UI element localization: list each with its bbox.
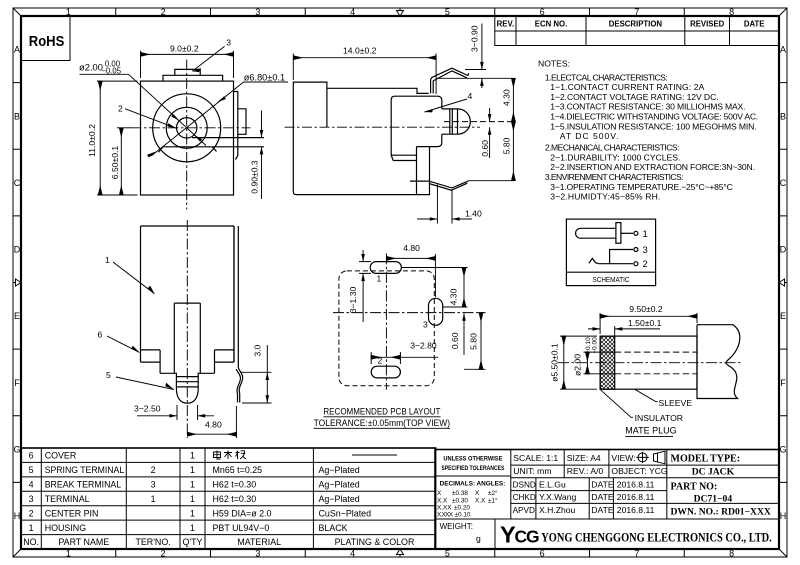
svg-text:Ag−Plated: Ag−Plated bbox=[319, 494, 360, 504]
svg-text:4.80: 4.80 bbox=[403, 243, 420, 253]
pad slot 1 bbox=[370, 262, 401, 274]
svg-text:5: 5 bbox=[29, 465, 34, 475]
center pin circle ø2.00 bbox=[177, 118, 197, 138]
SCHEMATICBOX bbox=[566, 219, 655, 286]
switch contact bbox=[589, 258, 599, 263]
svg-text:1−5.INSULATION RESISTANCE: 1: 1−5.INSULATION RESISTANCE: 100 MEGOHMS M… bbox=[550, 121, 756, 131]
svg-text:2: 2 bbox=[161, 549, 166, 559]
dim 5.80 right bbox=[480, 313, 482, 370]
dim 0.60 line bbox=[489, 108, 491, 158]
svg-text:1: 1 bbox=[643, 229, 648, 240]
svg-text:DESCRIPTION: DESCRIPTION bbox=[609, 20, 663, 29]
terminal tab small bbox=[238, 109, 246, 135]
svg-text:6: 6 bbox=[29, 451, 34, 461]
svg-text:1: 1 bbox=[190, 451, 195, 461]
dim 9.50 bbox=[600, 315, 697, 317]
spring clip top bbox=[431, 68, 469, 93]
svg-text:F: F bbox=[780, 378, 786, 388]
grid ticks left bbox=[13, 83, 21, 483]
terminal circle 1 bbox=[634, 231, 638, 235]
svg-text:D: D bbox=[780, 245, 787, 255]
dim 11.0 ext bbox=[97, 81, 138, 195]
svg-text:COVER: COVER bbox=[45, 451, 77, 461]
tolerance box text bbox=[441, 456, 505, 472]
svg-text:A: A bbox=[780, 45, 786, 55]
wire pin 3 bbox=[610, 250, 634, 264]
svg-text:6: 6 bbox=[98, 330, 103, 340]
corner diagonal TL bbox=[13, 8, 21, 16]
svg-text:SIZE: A4: SIZE: A4 bbox=[567, 453, 601, 463]
spring pin dome bbox=[176, 389, 198, 404]
svg-text:MATERIAL: MATERIAL bbox=[237, 537, 281, 547]
svg-text:X.XXX: X.XXX bbox=[437, 512, 454, 519]
svg-text:1−4.DIELECTRIC WITHSTANDING: 1−4.DIELECTRIC WITHSTANDING VOLTAGE: 500… bbox=[550, 112, 758, 122]
svg-text:B: B bbox=[780, 111, 786, 121]
footprint dashed outline bbox=[339, 271, 434, 386]
pad slot 3 bbox=[429, 298, 443, 325]
mate plug centerline bbox=[558, 362, 741, 364]
leader 2 bbox=[125, 109, 177, 129]
svg-text:CuSn−Plated: CuSn−Plated bbox=[319, 508, 372, 518]
svg-text:DC71−04: DC71−04 bbox=[694, 494, 733, 505]
svg-text:3: 3 bbox=[255, 549, 260, 559]
svg-text:14.0±0.2: 14.0±0.2 bbox=[343, 46, 377, 56]
svg-text:PBT UL94V−0: PBT UL94V−0 bbox=[213, 523, 270, 533]
svg-text:0.60: 0.60 bbox=[480, 140, 490, 157]
svg-text:2: 2 bbox=[643, 259, 648, 270]
svg-text:X.X: X.X bbox=[475, 498, 486, 505]
housing outline side bbox=[293, 82, 429, 195]
svg-text:PART NO:: PART NO: bbox=[671, 482, 718, 493]
svg-text:2−1.DURABILITY: 1000 CYCLES.: 2−1.DURABILITY: 1000 CYCLES. bbox=[550, 152, 680, 162]
svg-text:DWN. NO.: RD01−XXX: DWN. NO.: RD01−XXX bbox=[671, 506, 771, 517]
view symbols bbox=[636, 451, 665, 464]
dim 4.80 top bbox=[386, 257, 435, 259]
svg-text:ø5.50±0.1: ø5.50±0.1 bbox=[550, 343, 560, 382]
svg-text:1: 1 bbox=[29, 523, 34, 533]
svg-text:3.ENVIRENMENT CHARACTERISTICS: 3.ENVIRENMENT CHARACTERISTICS: bbox=[545, 172, 684, 182]
PCBVIEW bbox=[314, 243, 486, 428]
svg-text:INSULATOR: INSULATOR bbox=[635, 413, 683, 423]
svg-text:9.0±0.2: 9.0±0.2 bbox=[170, 44, 199, 54]
terminal circle 3 bbox=[634, 248, 638, 252]
svg-text:TERMINAL: TERMINAL bbox=[45, 494, 90, 504]
svg-text:1.ELECTCAL CHARACTERISTICS:: 1.ELECTCAL CHARACTERISTICS: bbox=[545, 72, 668, 82]
dim 3-1.30 bbox=[359, 250, 371, 322]
dim 11.0 line bbox=[99, 81, 101, 195]
centering arrow left bbox=[13, 279, 21, 286]
svg-text:OBJECT: YCG: OBJECT: YCG bbox=[611, 466, 668, 476]
svg-text:X.X: X.X bbox=[437, 498, 448, 505]
pad slot 2 bbox=[371, 366, 400, 378]
svg-text:±2°: ±2° bbox=[488, 489, 498, 497]
svg-text:3−0.90: 3−0.90 bbox=[469, 25, 479, 52]
svg-text:Q'TY: Q'TY bbox=[183, 537, 203, 547]
svg-text:H: H bbox=[780, 511, 787, 521]
arrowheads on circle dims bbox=[147, 68, 263, 158]
svg-text:1: 1 bbox=[377, 274, 382, 284]
center pin side bbox=[442, 109, 471, 134]
svg-text:0.60: 0.60 bbox=[450, 332, 460, 349]
svg-text:Ag−Plated: Ag−Plated bbox=[319, 465, 360, 475]
svg-text:C: C bbox=[14, 178, 21, 188]
svg-text:Y.X.Wang: Y.X.Wang bbox=[539, 492, 576, 502]
dim 6.50 line bbox=[120, 128, 122, 195]
dash in plating col row1 bbox=[352, 454, 397, 456]
svg-text:2: 2 bbox=[118, 104, 123, 114]
svg-text:ECN NO.: ECN NO. bbox=[535, 20, 568, 29]
FRONTVIEW bbox=[79, 37, 288, 209]
svg-text:ø2.00: ø2.00 bbox=[79, 62, 103, 73]
grid ticks bottom bbox=[116, 549, 685, 557]
svg-text:SCALE: 1:1: SCALE: 1:1 bbox=[513, 453, 558, 463]
svg-text:D: D bbox=[14, 245, 21, 255]
svg-text:1: 1 bbox=[105, 255, 110, 265]
svg-text:F: F bbox=[14, 378, 20, 388]
svg-text:3−2.50: 3−2.50 bbox=[134, 404, 161, 414]
svg-text:HOUSING: HOUSING bbox=[45, 523, 87, 533]
clip bottom ext line bbox=[469, 180, 515, 182]
dim 1.40 bbox=[417, 185, 472, 224]
TITLEBLOCK bbox=[435, 450, 779, 550]
svg-text:NOTES:: NOTES: bbox=[538, 59, 570, 69]
svg-text:6: 6 bbox=[540, 549, 545, 559]
svg-text:1.50±0.1: 1.50±0.1 bbox=[628, 318, 662, 328]
svg-text:2016.8.11: 2016.8.11 bbox=[617, 492, 655, 502]
svg-text:BLACK: BLACK bbox=[319, 523, 348, 533]
svg-text:WEIGHT:: WEIGHT: bbox=[440, 522, 473, 531]
model type bbox=[671, 454, 771, 518]
dim 4.30 5.80 line bbox=[512, 78, 514, 121]
barrel outline bbox=[391, 96, 442, 194]
svg-text:4: 4 bbox=[350, 549, 355, 559]
dim 0.60 right bbox=[463, 313, 465, 355]
svg-text:SCHEMATIC: SCHEMATIC bbox=[593, 275, 630, 284]
dim 4.30 right bbox=[463, 268, 465, 308]
insulator hatched band bbox=[600, 336, 615, 389]
centering arrow bottom bbox=[397, 549, 404, 557]
housing body front bbox=[141, 81, 234, 195]
wire pin 2 bbox=[599, 263, 633, 265]
svg-text:2016.8.11: 2016.8.11 bbox=[617, 505, 655, 515]
svg-text:4: 4 bbox=[350, 7, 355, 17]
svg-text:CG: CG bbox=[515, 526, 539, 546]
svg-text:1: 1 bbox=[190, 480, 195, 490]
leader sleeve bbox=[635, 389, 658, 401]
dim ø2.00 bbox=[586, 352, 588, 374]
svg-text:5.80: 5.80 bbox=[502, 137, 512, 154]
leader 4 bbox=[425, 99, 468, 112]
svg-text:RoHS: RoHS bbox=[29, 34, 65, 50]
leader diag ø6.80 bbox=[151, 82, 288, 156]
dim 3-0.90 line bbox=[465, 24, 486, 89]
dim 3-2.80 bbox=[371, 356, 400, 358]
svg-text:±0.38: ±0.38 bbox=[452, 490, 468, 497]
svg-text:0.90±0.3: 0.90±0.3 bbox=[250, 160, 260, 194]
svg-text:3−2.HUMIDTY:45~85% RH.: 3−2.HUMIDTY:45~85% RH. bbox=[550, 192, 660, 202]
svg-text:±0.30: ±0.30 bbox=[452, 498, 468, 505]
centerline horizontal bbox=[131, 127, 251, 129]
svg-text:X.H.Zhou: X.H.Zhou bbox=[539, 505, 576, 515]
svg-text:±0.10: ±0.10 bbox=[455, 512, 471, 519]
SIDEVIEW bbox=[285, 24, 515, 224]
svg-text:SLEEVE: SLEEVE bbox=[659, 398, 693, 408]
svg-text:Ag−Plated: Ag−Plated bbox=[319, 480, 360, 490]
pin hole dashed lines bbox=[615, 351, 697, 353]
svg-text:2: 2 bbox=[161, 7, 166, 17]
svg-text:4: 4 bbox=[468, 91, 473, 101]
svg-text:X: X bbox=[437, 490, 442, 497]
svg-text:H59 DIA=ø 2.0: H59 DIA=ø 2.0 bbox=[213, 508, 272, 518]
svg-text:−0.00: −0.00 bbox=[592, 337, 599, 354]
corner diagonal TR bbox=[779, 8, 787, 16]
svg-text:SPECIFIED TOLERANCES: SPECIFIED TOLERANCES bbox=[441, 465, 505, 472]
svg-text:5: 5 bbox=[445, 7, 450, 17]
svg-text:2: 2 bbox=[29, 508, 34, 518]
svg-text:RECOMMENDED PCB LAYOUT: RECOMMENDED PCB LAYOUT bbox=[323, 407, 440, 417]
svg-text:BREAK TERMINAL: BREAK TERMINAL bbox=[45, 480, 122, 490]
leader diag ø2.00 bbox=[80, 74, 207, 145]
svg-text:UNIT: mm: UNIT: mm bbox=[513, 466, 551, 476]
dim 3-2.50 bbox=[137, 405, 214, 420]
svg-text:5: 5 bbox=[106, 370, 111, 380]
pcb centerline vertical bbox=[385, 253, 387, 389]
svg-text:MATE PLUG: MATE PLUG bbox=[625, 425, 676, 435]
MATEPLUG bbox=[550, 304, 742, 437]
svg-text:CENTER PIN: CENTER PIN bbox=[45, 508, 99, 518]
bakelite chinese label bbox=[214, 451, 246, 460]
keyway chord bbox=[159, 138, 265, 153]
svg-text:2016.8.11: 2016.8.11 bbox=[617, 479, 655, 489]
centering arrow right bbox=[779, 279, 787, 286]
centerline vertical bbox=[186, 60, 188, 210]
svg-text:g: g bbox=[476, 534, 481, 544]
NOTES bbox=[538, 59, 758, 202]
svg-text:Mn65 t=0.25: Mn65 t=0.25 bbox=[213, 465, 263, 475]
svg-text:UNLESS OTHERWISE: UNLESS OTHERWISE bbox=[443, 456, 503, 463]
scale row bbox=[440, 453, 668, 544]
housing body lower view bbox=[141, 226, 235, 362]
svg-text:1: 1 bbox=[151, 494, 156, 504]
spring clip bottom bbox=[410, 181, 469, 190]
svg-text:NO.: NO. bbox=[23, 537, 39, 547]
cable end with break bbox=[697, 325, 740, 399]
svg-text:ø2.00: ø2.00 bbox=[572, 354, 582, 376]
leader 6 bbox=[107, 336, 140, 353]
inner circle bbox=[166, 107, 207, 148]
dim 0.90 lines bbox=[261, 111, 263, 200]
dim 6.50 ext bbox=[117, 127, 131, 129]
svg-text:1: 1 bbox=[66, 549, 71, 559]
pin offset dashed line bbox=[444, 121, 515, 123]
svg-text:2: 2 bbox=[378, 356, 383, 366]
svg-text:G: G bbox=[779, 444, 786, 454]
flange right bbox=[215, 350, 235, 373]
svg-text:X: X bbox=[475, 490, 480, 497]
terminal plate lower bbox=[234, 226, 238, 368]
svg-text:TER'NO.: TER'NO. bbox=[135, 537, 170, 547]
leader 1 bbox=[113, 262, 155, 294]
plug stop bar bbox=[616, 223, 621, 244]
svg-text:3: 3 bbox=[226, 37, 231, 47]
dim 14.0 ext bbox=[293, 54, 436, 95]
center block bbox=[160, 303, 214, 373]
svg-text:TOLERANCE:±0.05mm(TOP VIEW): TOLERANCE:±0.05mm(TOP VIEW) bbox=[314, 418, 451, 428]
svg-text:5.80: 5.80 bbox=[469, 333, 479, 350]
svg-text:4.30: 4.30 bbox=[449, 288, 459, 305]
svg-text:DSND: DSND bbox=[513, 480, 536, 489]
corner diagonal BR bbox=[779, 549, 787, 557]
svg-text:3: 3 bbox=[29, 494, 34, 504]
svg-text:5: 5 bbox=[445, 549, 450, 559]
svg-text:3: 3 bbox=[423, 320, 428, 330]
svg-text:ANGLES:: ANGLES: bbox=[477, 481, 506, 488]
svg-text:E: E bbox=[780, 311, 786, 321]
PARTSTABLE bbox=[21, 448, 436, 549]
grid ticks right bbox=[779, 83, 787, 483]
pcb layout caption bbox=[314, 407, 451, 428]
svg-text:DATE: DATE bbox=[591, 492, 614, 502]
svg-text:ø6.80±0.1: ø6.80±0.1 bbox=[244, 73, 285, 83]
centerline vertical lower bbox=[186, 220, 188, 438]
svg-text:REV.: REV. bbox=[497, 20, 514, 29]
svg-text:DECIMALS:: DECIMALS: bbox=[440, 481, 476, 488]
clip top ext line bbox=[437, 77, 515, 79]
svg-text:DATE: DATE bbox=[591, 505, 614, 515]
svg-text:1: 1 bbox=[190, 465, 195, 475]
grid ticks top bbox=[116, 8, 685, 16]
ROHS bbox=[21, 16, 70, 61]
terminal circle 2 bbox=[634, 262, 638, 266]
svg-text:3−2.80: 3−2.80 bbox=[410, 341, 437, 351]
svg-text:SPRING TERMINAL: SPRING TERMINAL bbox=[45, 465, 125, 475]
slot1 center ext bbox=[402, 267, 468, 269]
svg-text:E: E bbox=[14, 311, 20, 321]
svg-text:7: 7 bbox=[634, 549, 639, 559]
svg-text:4.30: 4.30 bbox=[502, 89, 512, 106]
spring pin ribs bbox=[176, 373, 198, 388]
svg-text:G: G bbox=[13, 444, 20, 454]
leader 5 bbox=[116, 377, 174, 390]
svg-text:3−1.30: 3−1.30 bbox=[348, 287, 358, 314]
svg-text:H: H bbox=[14, 511, 21, 521]
dim 14.0 line bbox=[293, 57, 436, 59]
svg-text:±1°: ±1° bbox=[488, 497, 498, 505]
svg-text:REV.: A/0: REV.: A/0 bbox=[567, 466, 604, 476]
svg-text:1−3.CONTACT RESISTANCE: 30: 1−3.CONTACT RESISTANCE: 30 MILLIOHMS MAX… bbox=[550, 102, 745, 112]
svg-text:H62 t=0.30: H62 t=0.30 bbox=[213, 494, 257, 504]
plug barrel sleeve bbox=[600, 336, 697, 389]
svg-text:E.L.Gu: E.L.Gu bbox=[539, 479, 566, 489]
svg-text:11.0±0.2: 11.0±0.2 bbox=[87, 124, 97, 157]
svg-text:3: 3 bbox=[151, 480, 156, 490]
svg-text:C: C bbox=[780, 178, 787, 188]
dim 4.80 bbox=[187, 433, 236, 435]
dim ø5.50 bbox=[563, 336, 565, 389]
texts bbox=[79, 37, 285, 193]
corner diagonal BL bbox=[13, 549, 21, 557]
svg-text:4.80: 4.80 bbox=[205, 420, 222, 430]
svg-text:3: 3 bbox=[255, 7, 260, 17]
dim 1.50 bbox=[588, 326, 660, 338]
bent wire leg bbox=[236, 368, 243, 403]
dim 9.0 ext bbox=[141, 51, 234, 78]
svg-text:A: A bbox=[14, 45, 20, 55]
svg-text:6.50±0.1: 6.50±0.1 bbox=[110, 146, 120, 180]
flange left bbox=[141, 350, 161, 373]
svg-text:H62 t=0.30: H62 t=0.30 bbox=[213, 480, 257, 490]
svg-text:1: 1 bbox=[190, 508, 195, 518]
REVTABLE bbox=[495, 16, 779, 46]
svg-text:DATE: DATE bbox=[744, 20, 765, 29]
svg-text:9.50±0.2: 9.50±0.2 bbox=[629, 304, 663, 314]
svg-text:CHKD: CHKD bbox=[513, 493, 536, 502]
svg-text:VIEW:: VIEW: bbox=[611, 453, 635, 463]
dim 3.0 line bbox=[266, 345, 268, 403]
svg-text:2−2.INSERTION AND EXTRACTION: 2−2.INSERTION AND EXTRACTION FORCE:3N~30… bbox=[550, 162, 755, 172]
svg-text:B: B bbox=[14, 111, 20, 121]
leader insulator bbox=[601, 390, 634, 418]
svg-text:2: 2 bbox=[151, 465, 156, 475]
pcb centerline horizontal bbox=[333, 312, 486, 314]
svg-text:APVD: APVD bbox=[513, 506, 535, 515]
cover tab small bump bbox=[175, 69, 200, 75]
svg-text:1−2.CONTACT VOLTAGE RATING:: 1−2.CONTACT VOLTAGE RATING: 12V DC. bbox=[550, 92, 718, 102]
svg-text:1.40: 1.40 bbox=[465, 209, 482, 219]
svg-text:−0.05: −0.05 bbox=[101, 66, 121, 75]
dim 9.0 line bbox=[141, 53, 234, 55]
svg-text:MODEL TYPE:: MODEL TYPE: bbox=[671, 454, 741, 465]
svg-text:PART NAME: PART NAME bbox=[58, 537, 109, 547]
barrel circle ø6.80 bbox=[153, 94, 221, 162]
leader 3 bbox=[192, 46, 224, 71]
svg-text:3−1.OPERATING TEMPERATURE.−25: 3−1.OPERATING TEMPERATURE.−25°C~+85°C bbox=[550, 182, 733, 192]
svg-text:AT DC 500V.: AT DC 500V. bbox=[560, 131, 619, 141]
plug tip symbol bbox=[576, 228, 616, 238]
svg-text:3: 3 bbox=[643, 245, 648, 256]
BOTTOMVIEW bbox=[98, 220, 272, 438]
centering arrow top bbox=[397, 8, 404, 16]
wire pin 1 bbox=[621, 232, 633, 234]
housing top edge bbox=[327, 88, 429, 93]
svg-text:YONG CHENGGONG ELECTRONICS CO.: YONG CHENGGONG ELECTRONICS CO., LTD. bbox=[541, 529, 771, 544]
svg-text:3.0: 3.0 bbox=[253, 345, 263, 357]
cover tab wide step bbox=[163, 75, 223, 81]
dim 3.0 ext lines bbox=[241, 372, 272, 403]
aux line 0.60 upper bbox=[443, 306, 468, 308]
svg-text:DATE: DATE bbox=[591, 479, 614, 489]
svg-text:1−1.CONTACT CURRENT RATING:: 1−1.CONTACT CURRENT RATING: 2A bbox=[550, 82, 704, 92]
svg-text:4: 4 bbox=[29, 480, 34, 490]
svg-text:REVISED: REVISED bbox=[690, 20, 725, 29]
terminal plate right bbox=[234, 92, 238, 160]
svg-text:1: 1 bbox=[190, 523, 195, 533]
svg-text:2.MECHANICAL CHARACTERISTICS:: 2.MECHANICAL CHARACTERISTICS: bbox=[545, 143, 680, 153]
svg-text:PLATING & COLOR: PLATING & COLOR bbox=[335, 537, 415, 547]
arrowheads bbox=[480, 62, 484, 70]
svg-text:DC JACK: DC JACK bbox=[692, 467, 735, 478]
svg-text:1: 1 bbox=[190, 494, 195, 504]
svg-text:8: 8 bbox=[729, 549, 734, 559]
centerline bbox=[285, 126, 481, 128]
